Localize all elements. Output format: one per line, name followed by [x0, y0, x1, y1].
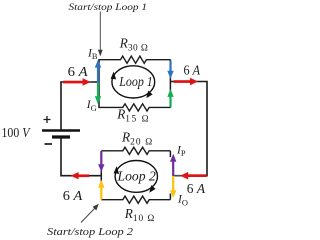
wire loop1 bottom with resistor R2 zigzag: [98, 104, 170, 111]
annotation arrow from Start/stop Loop 1 down to IB node: [98, 12, 103, 57]
annotation arrow from Start/stop Loop 2 up to IO node: [81, 204, 99, 223]
battery V1 bottom plate (negative): [52, 135, 70, 138]
wire loop2 right top corner stub: [169, 151, 171, 157]
arrow purple IP up, loop2 right: [170, 154, 176, 176]
loop current ellipse Loop 2: [114, 161, 158, 193]
wire loop1 top with resistor R1 zigzag: [98, 56, 170, 63]
wire loop2 right junction short link: [173, 175, 181, 177]
arrow yellow IO up, loop2 left: [98, 180, 104, 200]
arrow red 6A out of loop1 (points right): [174, 78, 198, 86]
svg-text:Start/stop Loop 2: Start/stop Loop 2: [47, 227, 134, 238]
arrow green IG up, loop1 right: [167, 89, 173, 107]
arrow blue IB down, loop1 right: [167, 60, 173, 79]
wire loop2 bottom with resistor R4 zigzag: [101, 196, 170, 203]
battery V1 top plate (positive): [42, 129, 80, 132]
wire loop1 left vertical: [98, 60, 100, 107]
svg-text:6 A: 6 A: [68, 65, 88, 80]
arrow blue IB up, loop1 left: [95, 60, 101, 83]
svg-text:6 A: 6 A: [63, 189, 83, 204]
battery plus sign: [44, 116, 51, 123]
svg-text:6 A: 6 A: [187, 182, 206, 197]
svg-text:6 A: 6 A: [184, 63, 201, 78]
arrow red 6A into loop1 (points right): [63, 78, 90, 85]
svg-text:Loop 2: Loop 2: [117, 170, 156, 185]
arrow yellow IO down, loop2 right: [170, 176, 176, 198]
arrow red 6A back to battery (points left): [71, 172, 90, 179]
wire loop2 left vertical: [100, 151, 102, 200]
arrow purple IP down, loop2 left: [98, 151, 104, 172]
wire loop2 top with resistor R3 zigzag: [101, 147, 170, 154]
arrow green IG down, loop1 left: [95, 83, 101, 105]
svg-text:100 V: 100 V: [2, 126, 31, 141]
wire loop2 left junction to battery negative: [61, 137, 101, 176]
loop current ellipse Loop 1: [111, 66, 155, 98]
svg-text:Start/stop Loop 1: Start/stop Loop 1: [69, 3, 148, 13]
battery minus sign: [45, 143, 53, 145]
wire battery positive to loop1 left junction: [61, 82, 99, 131]
arrow red 6A into loop2 (points left): [180, 172, 206, 180]
wire loop1 right vertical: [169, 60, 171, 108]
wire loop2 right bottom corner stub: [169, 194, 171, 200]
wire loop1 right junction to right edge down to loop2 entry: [170, 82, 207, 176]
svg-text:Loop 1: Loop 1: [118, 75, 152, 90]
